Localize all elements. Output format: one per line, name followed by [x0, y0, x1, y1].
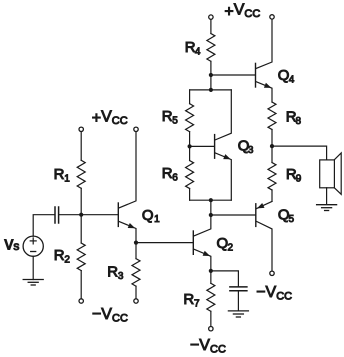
svg-text:Q: Q — [142, 207, 154, 224]
svg-text:9: 9 — [296, 173, 302, 184]
svg-text:−: − — [256, 284, 265, 301]
svg-text:7: 7 — [194, 298, 200, 309]
svg-text:1: 1 — [64, 173, 70, 184]
svg-text:−: − — [92, 306, 101, 323]
svg-text:R: R — [162, 108, 173, 125]
svg-text:V: V — [234, 1, 245, 18]
svg-text:6: 6 — [172, 172, 178, 183]
svg-text:s: s — [13, 239, 19, 253]
svg-text:V: V — [266, 284, 277, 301]
svg-text:5: 5 — [172, 115, 178, 126]
svg-text:+: + — [92, 110, 101, 127]
svg-text:R: R — [54, 166, 65, 183]
svg-text:CC: CC — [276, 290, 292, 302]
svg-text:3: 3 — [248, 145, 254, 156]
svg-text:V: V — [199, 337, 210, 354]
svg-text:5: 5 — [289, 214, 295, 225]
svg-text:v: v — [4, 233, 13, 253]
svg-text:CC: CC — [112, 115, 128, 127]
svg-text:4: 4 — [195, 47, 201, 58]
svg-text:2: 2 — [64, 254, 70, 265]
svg-text:3: 3 — [118, 271, 124, 282]
svg-text:−: − — [190, 337, 199, 354]
svg-text:V: V — [101, 109, 112, 126]
svg-text:R: R — [183, 291, 194, 308]
svg-text:CC: CC — [210, 343, 226, 355]
svg-text:Q: Q — [278, 67, 290, 84]
svg-text:2: 2 — [228, 243, 234, 254]
svg-text:CC: CC — [244, 8, 260, 20]
svg-text:CC: CC — [112, 313, 128, 325]
svg-text:Q: Q — [217, 235, 229, 252]
svg-text:8: 8 — [296, 116, 302, 127]
svg-text:R: R — [107, 264, 118, 281]
svg-text:1: 1 — [154, 214, 160, 225]
svg-text:R: R — [54, 247, 65, 264]
svg-text:R: R — [162, 165, 173, 182]
svg-text:4: 4 — [289, 74, 295, 85]
svg-text:V: V — [101, 306, 112, 323]
svg-text:+: + — [224, 4, 233, 21]
